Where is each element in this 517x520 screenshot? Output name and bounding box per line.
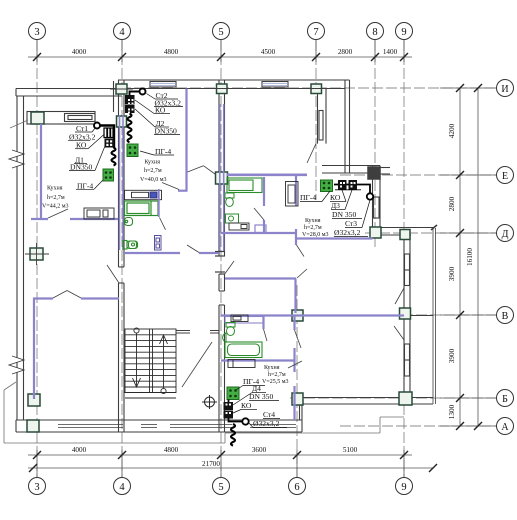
- balcony edge right: [433, 228, 436, 404]
- axis 9 line: [403, 40, 405, 477]
- axis E line: [340, 174, 498, 176]
- wall step A-B connector: [300, 398, 303, 432]
- riser St3 circle: [367, 193, 373, 199]
- svg-text:Ст3: Ст3: [345, 219, 357, 228]
- riser St4 circle: [242, 418, 248, 424]
- svg-text:В: В: [502, 311, 509, 322]
- valve KO4: [224, 402, 234, 410]
- door kitchen2: [188, 166, 204, 172]
- stove PG-4 flat3: [321, 180, 333, 192]
- svg-text:7: 7: [313, 27, 318, 38]
- axis 5 line: [220, 40, 222, 477]
- armchair flat2 a: [123, 241, 137, 250]
- svg-text:5: 5: [218, 482, 223, 493]
- svg-text:h=2,7м: h=2,7м: [268, 372, 286, 378]
- svg-text:3600: 3600: [252, 446, 267, 454]
- valve KO1: [104, 128, 113, 138]
- valve D4: [224, 411, 234, 419]
- label St1: [75, 124, 96, 133]
- wall kitchen1 bottom: [31, 218, 48, 220]
- label DN350 flat3: [332, 190, 362, 219]
- svg-text:4000: 4000: [72, 48, 87, 56]
- svg-text:Кухня: Кухня: [305, 218, 321, 224]
- window right V-B: [405, 344, 410, 376]
- axis D line: [365, 232, 498, 234]
- svg-text:ПГ-4: ПГ-4: [300, 193, 316, 202]
- wall right facade I-E: [345, 80, 350, 173]
- stove PG-4 flat1: [103, 169, 114, 181]
- porch left vertical: [3, 390, 5, 443]
- column 4/I upper: [116, 84, 127, 94]
- column left pier A: [27, 420, 39, 432]
- column B/6: [292, 393, 303, 405]
- door bedroom: [254, 208, 264, 220]
- stub E right: [380, 168, 390, 175]
- svg-text:4000: 4000: [72, 446, 87, 454]
- svg-text:2800: 2800: [338, 48, 353, 56]
- column D/right1: [370, 227, 381, 238]
- door loggia1: [395, 288, 404, 304]
- label d32 flat3: [334, 200, 370, 237]
- label DN350 flat1: [69, 146, 105, 172]
- wall corridor top: [124, 252, 180, 254]
- wall kitchen2 bottom: [178, 190, 188, 192]
- label kitchen2: [140, 160, 167, 183]
- stair landing stubs: [176, 330, 190, 332]
- door stair: [182, 342, 212, 387]
- wall axis4 upper edge: [113, 81, 115, 112]
- porch bottom left: [4, 442, 225, 444]
- svg-text:3: 3: [34, 482, 39, 493]
- door corridor mid: [187, 245, 199, 253]
- door room V: [295, 330, 302, 348]
- door bath2: [264, 329, 268, 341]
- label PG4 flat2: [140, 147, 174, 156]
- svg-text:4800: 4800: [164, 48, 179, 56]
- door bigroom: [307, 144, 316, 163]
- wall bath2 right: [262, 316, 264, 330]
- wall room3 left vertical: [33, 299, 35, 400]
- break left wall upper: [9, 150, 24, 168]
- porch diag: [4, 382, 16, 390]
- door loggia2: [394, 326, 404, 340]
- svg-text:Кухня: Кухня: [47, 185, 63, 191]
- wall top band axis I: [118, 80, 350, 89]
- riser zigzag St4: [231, 424, 235, 446]
- counter bath2: [225, 317, 263, 324]
- cross ticks at columns: [25, 89, 328, 266]
- svg-text:Б: Б: [502, 394, 508, 405]
- svg-text:3: 3: [34, 27, 39, 38]
- door kitchen1: [48, 209, 68, 218]
- svg-text:DN 350: DN 350: [249, 392, 273, 401]
- door kitchen3: [297, 245, 305, 257]
- wall axis5 purple part: [220, 104, 224, 251]
- stair bottom wall: [124, 392, 176, 394]
- svg-text:Ø32х3,2: Ø32х3,2: [334, 228, 361, 237]
- wall kitchen2 right vertical: [185, 89, 187, 192]
- svg-text:9: 9: [401, 482, 406, 493]
- label PG4 flat4: [236, 377, 265, 390]
- label DN350 flat2: [154, 127, 180, 136]
- wardrobe kitchen3: [286, 182, 299, 207]
- window top w1: [150, 82, 176, 88]
- floor drain symbol: [202, 395, 217, 409]
- column left pier mid: [30, 248, 43, 260]
- bed bedroom: [227, 178, 262, 193]
- label DN350 flat4: [249, 392, 279, 401]
- wall E step horizontal: [322, 166, 380, 174]
- axis 6 line: [296, 285, 298, 477]
- svg-text:21700: 21700: [202, 460, 220, 468]
- wall kitchen4 top: [221, 359, 295, 361]
- svg-text:Ст4: Ст4: [263, 410, 275, 419]
- axis A line: [340, 425, 498, 427]
- wall 6 vertical D-V: [294, 279, 296, 314]
- window right D-V: [405, 254, 410, 286]
- label d32 flat2: [154, 99, 183, 108]
- column 5/E: [216, 172, 228, 184]
- label kitchen1: [42, 185, 69, 209]
- label d32 flat4: [249, 419, 287, 428]
- corridor line: [125, 397, 176, 399]
- svg-text:Д3: Д3: [331, 201, 340, 210]
- axis 3 line: [36, 40, 38, 477]
- stair treads: [125, 335, 176, 387]
- valve D3: [349, 180, 358, 190]
- pipe St3: [334, 185, 370, 194]
- label D4: [233, 384, 266, 405]
- break left wall lower: [9, 356, 24, 374]
- counter flat2 main: [125, 190, 162, 199]
- axis 7 line: [315, 40, 317, 200]
- column V/6: [292, 310, 303, 321]
- svg-text:4: 4: [119, 27, 125, 38]
- svg-text:3900: 3900: [448, 348, 456, 363]
- svg-text:h=2,7м: h=2,7м: [144, 168, 162, 174]
- label kitchen3: [302, 218, 329, 238]
- wall kitchen3 left vertical: [295, 175, 297, 207]
- door room D-V: [297, 269, 307, 278]
- svg-text:8: 8: [372, 27, 377, 38]
- svg-text:2800: 2800: [448, 196, 456, 211]
- column D/right2: [400, 230, 410, 240]
- svg-text:Е: Е: [502, 171, 508, 182]
- axis 4 line: [121, 40, 123, 477]
- label St4: [263, 410, 280, 419]
- column 4/I lower: [117, 116, 127, 127]
- svg-text:Д: Д: [502, 229, 509, 240]
- wall bedroom right vertical: [263, 177, 265, 206]
- wall right facade E-D: [373, 166, 381, 236]
- toilet bath2: [226, 323, 235, 336]
- column 3/I: [31, 112, 44, 124]
- label St3: [345, 219, 362, 228]
- axis I line: [120, 87, 498, 89]
- svg-text:1400: 1400: [383, 48, 398, 56]
- label KO2: [135, 100, 170, 115]
- riser St2 circle: [140, 89, 146, 95]
- svg-text:DN 350: DN 350: [332, 210, 356, 219]
- valve D1: [105, 139, 115, 148]
- svg-text:Кухня: Кухня: [145, 160, 161, 166]
- svg-text:КО: КО: [241, 401, 252, 410]
- leader kitchen2: [162, 183, 179, 190]
- wall kitchen4 right: [293, 361, 295, 373]
- basin bath2: [231, 315, 248, 322]
- pipe St4: [228, 400, 230, 403]
- window right E-D: [374, 197, 380, 218]
- shelf bedroom2: [255, 225, 266, 233]
- wall axis4 core: [119, 80, 125, 432]
- wall D partition: [296, 237, 373, 239]
- svg-text:V=44,2 м3: V=44,2 м3: [42, 204, 69, 210]
- pipe St2: [130, 92, 140, 96]
- wall left window band under top: [27, 112, 95, 125]
- wall bath1 bottom: [225, 277, 296, 279]
- pipe St4b: [229, 419, 243, 422]
- svg-text:Ø32х3,2: Ø32х3,2: [253, 419, 280, 428]
- valve D2: [125, 105, 135, 114]
- wall B band bottom-right: [302, 398, 433, 405]
- svg-text:5100: 5100: [343, 446, 358, 454]
- label KO1: [75, 134, 105, 150]
- diag top-left: [10, 120, 28, 128]
- svg-text:V=25,5 м3: V=25,5 м3: [262, 379, 289, 385]
- svg-text:4: 4: [119, 482, 125, 493]
- svg-text:V=40,0 м3: V=40,0 м3: [140, 177, 167, 183]
- bed flat2: [125, 201, 159, 216]
- stove PG-4 flat4: [227, 387, 239, 400]
- axis B line: [290, 397, 498, 399]
- wall kitchen1 left vertical: [40, 124, 42, 218]
- svg-text:9: 9: [401, 27, 406, 38]
- svg-text:16100: 16100: [466, 248, 474, 266]
- label KO3: [330, 190, 346, 202]
- shelf bedroom: [229, 223, 249, 230]
- pipe shelf St3: [335, 189, 361, 191]
- column V/right: [400, 308, 411, 319]
- svg-text:1300: 1300: [448, 404, 456, 419]
- valve KO3: [338, 180, 347, 190]
- wall room2 bottom: [33, 297, 53, 299]
- kitchen1 counter: [84, 208, 114, 219]
- wall axis5 core: [219, 80, 225, 432]
- tub bath2: [225, 342, 262, 358]
- svg-text:4500: 4500: [261, 48, 276, 56]
- riser zigzag St2: [128, 114, 132, 143]
- label PG4 flat3: [300, 191, 330, 202]
- label D1: [74, 156, 87, 165]
- stair divider: [149, 329, 151, 393]
- label St2: [147, 91, 179, 100]
- svg-text:Кухня: Кухня: [264, 365, 280, 371]
- wall 6 below V: [293, 316, 295, 331]
- stair arrow down: [133, 328, 141, 387]
- label KO4: [233, 401, 257, 413]
- door corridor left: [107, 265, 119, 283]
- svg-text:3900: 3900: [448, 266, 456, 281]
- svg-text:4800: 4800: [164, 446, 179, 454]
- valve KO2: [125, 95, 135, 104]
- wall top-right interior vertical: [318, 89, 327, 144]
- label PG4 flat1: [76, 180, 103, 190]
- svg-text:6: 6: [294, 482, 299, 493]
- svg-text:V=28,0 м3: V=28,0 м3: [302, 232, 329, 238]
- door kitchen4 leader: [288, 361, 302, 368]
- stub V balcony: [410, 315, 433, 317]
- washer bedroom: [226, 214, 239, 223]
- armchair flat2 b: [129, 241, 138, 249]
- door flat2 room: [160, 218, 166, 230]
- label D3: [331, 201, 345, 210]
- porch step: [224, 433, 226, 443]
- wall left facade: [17, 96, 24, 420]
- axis V line: [290, 314, 498, 316]
- label kitchen4: [262, 365, 289, 385]
- partition flat2: [158, 189, 160, 217]
- washer kitchen4: [228, 360, 255, 368]
- column E/right: [368, 167, 380, 179]
- wall right facade D-B: [404, 235, 410, 398]
- label D2: [135, 109, 169, 128]
- svg-text:А: А: [501, 422, 509, 433]
- bookshelf flat2: [155, 236, 162, 251]
- svg-text:5: 5: [218, 27, 223, 38]
- jamb axis5: [215, 251, 225, 253]
- column 7/I: [311, 84, 322, 94]
- sink bath2: [223, 333, 226, 342]
- wall A band bottom: [16, 420, 302, 432]
- riser zigzag St1: [112, 148, 116, 166]
- window bottom glazing: [58, 425, 296, 428]
- svg-text:4200: 4200: [448, 123, 456, 138]
- wall E bedroom top: [227, 174, 308, 177]
- wall D band right: [373, 225, 438, 235]
- column B/right: [399, 392, 412, 405]
- door room2 double: [53, 291, 67, 299]
- svg-text:И: И: [501, 84, 508, 95]
- jamb axis5 low: [215, 271, 225, 273]
- column 5/I: [217, 84, 228, 94]
- toilet bedroom: [225, 193, 234, 207]
- riser St1 circle: [94, 123, 100, 129]
- wall bathroom3 bottom: [221, 232, 296, 234]
- window top w2: [262, 82, 288, 88]
- stove PG-4 flat2: [127, 144, 138, 157]
- stair outline: [125, 329, 176, 393]
- door corridor5: [224, 261, 234, 275]
- wall V axis: [221, 314, 404, 316]
- pipe St1: [100, 126, 114, 149]
- label d32 flat1: [68, 132, 96, 141]
- axis 8 line: [374, 40, 376, 250]
- svg-text:h=2,7м: h=2,7м: [47, 195, 65, 201]
- stair arrow up: [160, 335, 168, 394]
- svg-text:h=2,7м: h=2,7м: [304, 225, 322, 231]
- wall axis4 purple part: [120, 115, 124, 250]
- chair flat2: [125, 218, 133, 226]
- wall top-left band: [16, 89, 122, 97]
- column left pier B: [28, 394, 40, 406]
